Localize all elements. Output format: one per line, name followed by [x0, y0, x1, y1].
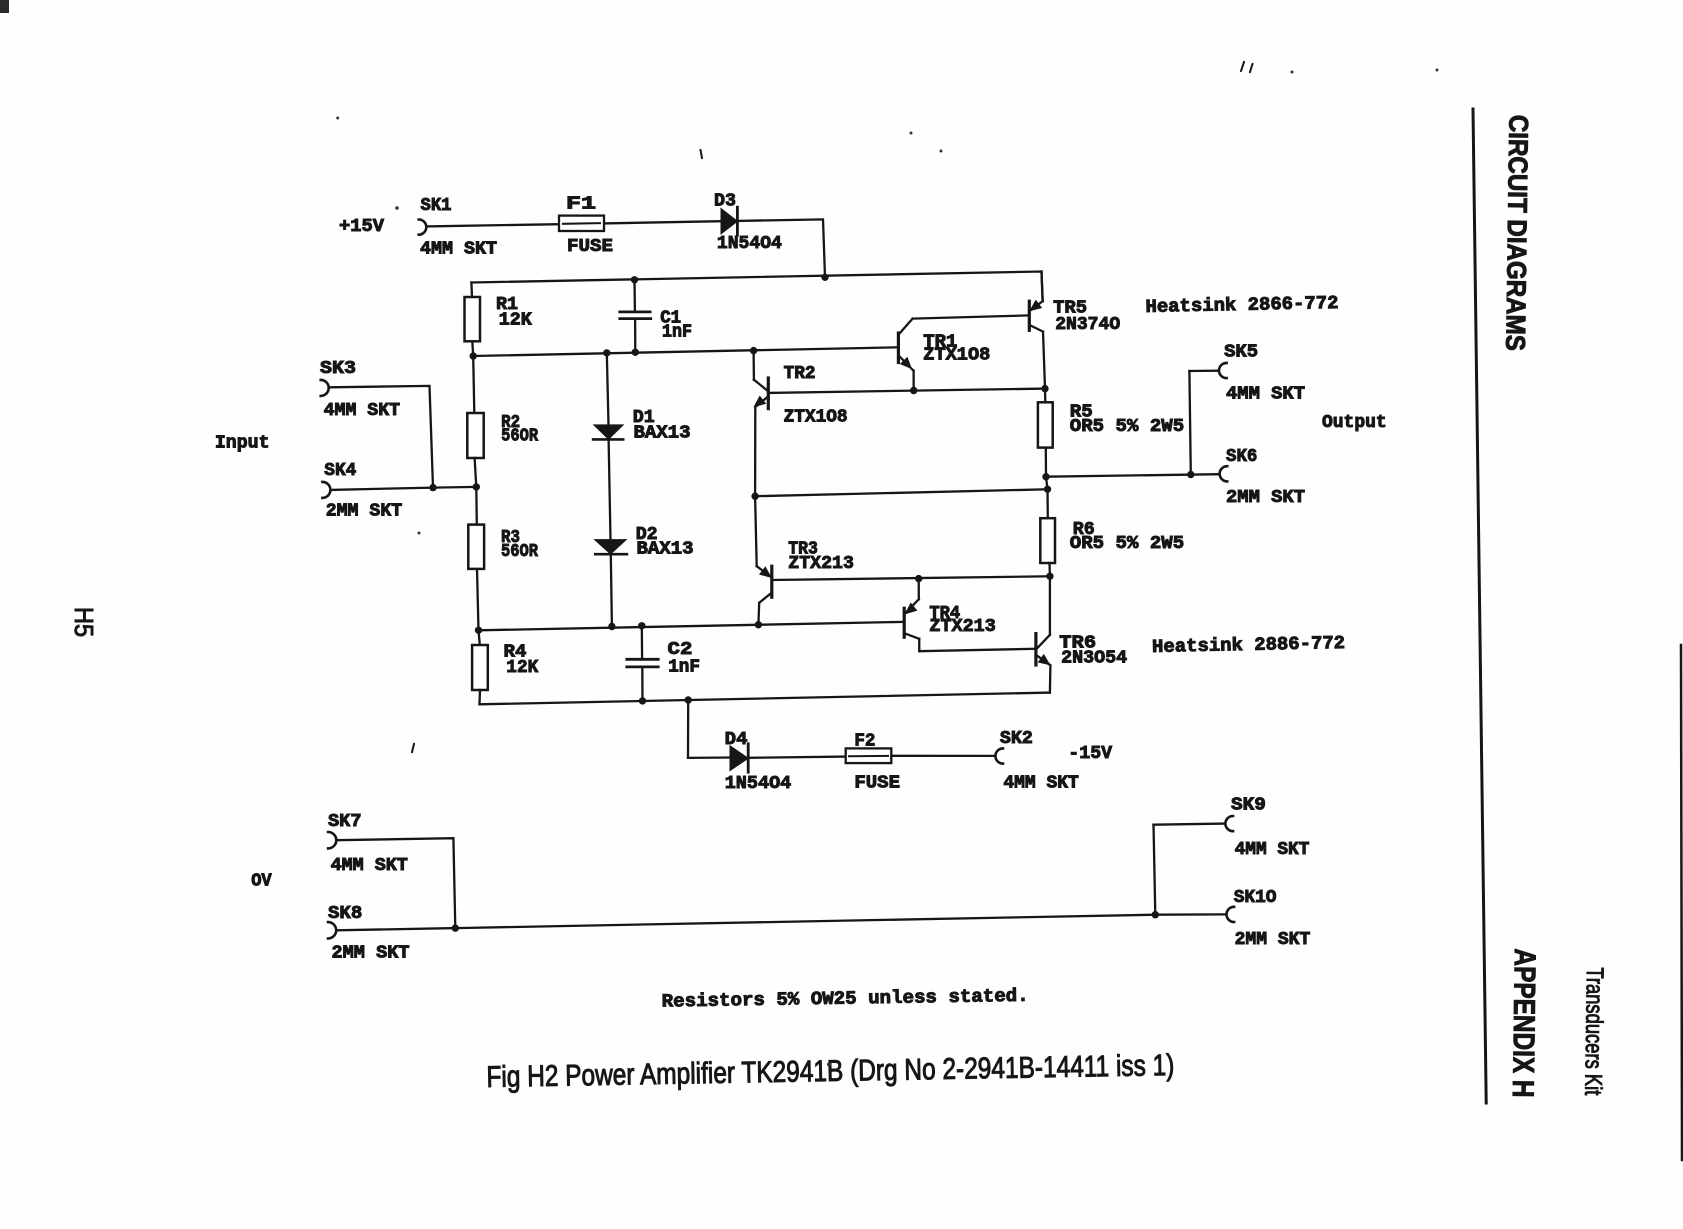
svg-text:OR5 5% 2W5: OR5 5% 2W5: [1070, 416, 1184, 437]
svg-text:2MM SKT: 2MM SKT: [1235, 929, 1311, 950]
svg-text:H5: H5: [69, 607, 99, 637]
svg-text:4MM SKT: 4MM SKT: [331, 855, 408, 876]
svg-text:1N54O4: 1N54O4: [725, 773, 792, 794]
svg-text:ZTX1O8: ZTX1O8: [784, 407, 848, 428]
svg-text:SK6: SK6: [1226, 446, 1257, 467]
svg-text:56OR: 56OR: [501, 426, 539, 447]
svg-text:2MM SKT: 2MM SKT: [326, 501, 403, 522]
svg-text:12K: 12K: [499, 310, 533, 331]
svg-text:4MM SKT: 4MM SKT: [1003, 773, 1078, 794]
svg-text:APPENDIX H: APPENDIX H: [1506, 948, 1541, 1097]
svg-text:SK5: SK5: [1224, 342, 1258, 363]
svg-text:Heatsink 2886-772: Heatsink 2886-772: [1152, 633, 1345, 658]
svg-text:Output: Output: [1322, 412, 1387, 433]
svg-text:SK7: SK7: [328, 811, 362, 832]
svg-text:56OR: 56OR: [501, 541, 539, 562]
svg-text:Input: Input: [215, 433, 270, 454]
svg-text:1nF: 1nF: [662, 322, 692, 343]
svg-text:BAX13: BAX13: [637, 539, 694, 560]
svg-text:2N3O54: 2N3O54: [1061, 647, 1127, 668]
svg-text:Heatsink 2866-772: Heatsink 2866-772: [1145, 293, 1338, 318]
svg-text:SK8: SK8: [328, 903, 362, 924]
svg-text:F1: F1: [566, 194, 596, 215]
svg-text:4MM SKT: 4MM SKT: [1226, 383, 1305, 404]
svg-text:ZTX213: ZTX213: [788, 553, 854, 574]
svg-text:12K: 12K: [506, 657, 539, 678]
svg-text:OR5 5% 2W5: OR5 5% 2W5: [1070, 533, 1184, 554]
svg-text:F2: F2: [854, 731, 875, 752]
svg-text:FUSE: FUSE: [567, 236, 613, 257]
svg-text:SK4: SK4: [324, 460, 356, 481]
svg-text:D3: D3: [714, 191, 736, 212]
svg-text:D4: D4: [725, 729, 748, 750]
svg-text:-15V: -15V: [1068, 743, 1113, 764]
svg-text:BAX13: BAX13: [634, 423, 691, 444]
svg-text:2N374O: 2N374O: [1055, 314, 1120, 335]
svg-text:4MM SKT: 4MM SKT: [324, 400, 401, 421]
svg-text:SK1O: SK1O: [1234, 887, 1277, 908]
svg-text:TR2: TR2: [784, 363, 816, 384]
svg-text:SK1: SK1: [421, 195, 452, 216]
svg-text:Transducers Kit: Transducers Kit: [1579, 967, 1608, 1096]
svg-text:SK3: SK3: [320, 358, 356, 379]
svg-text:+15V: +15V: [339, 216, 385, 237]
svg-text:2MM SKT: 2MM SKT: [332, 942, 410, 963]
svg-text:4MM SKT: 4MM SKT: [1235, 839, 1310, 860]
svg-text:1N54O4: 1N54O4: [717, 233, 782, 254]
svg-text:ZTX1O8: ZTX1O8: [923, 345, 990, 366]
svg-text:FUSE: FUSE: [854, 773, 900, 794]
svg-text:OV: OV: [251, 871, 272, 892]
svg-text:SK2: SK2: [1000, 728, 1033, 749]
svg-text:SK9: SK9: [1231, 794, 1266, 815]
svg-text:4MM SKT: 4MM SKT: [420, 239, 497, 260]
svg-text:2MM SKT: 2MM SKT: [1226, 487, 1305, 508]
svg-text:CIRCUIT DIAGRAMS: CIRCUIT DIAGRAMS: [1500, 115, 1533, 351]
svg-text:ZTX213: ZTX213: [929, 616, 995, 637]
svg-text:1nF: 1nF: [668, 656, 700, 677]
